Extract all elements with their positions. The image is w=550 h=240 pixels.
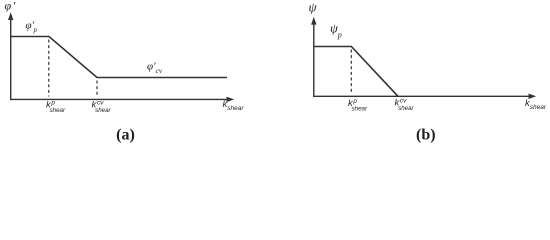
y-axis (b): [313, 23, 315, 97]
x-axis (a): [10, 98, 228, 100]
x-axis arrowhead (b): [529, 94, 537, 99]
y-axis (a): [10, 19, 12, 100]
y-axis arrowhead (b): [311, 17, 316, 25]
x-axis (b): [313, 95, 530, 97]
curve (a): peak plateau, softening slope, cv plateau: [11, 37, 227, 78]
svg-text:ψ: ψ: [309, 0, 318, 15]
svg-text:φ′: φ′: [5, 0, 16, 13]
dashed line at k_p (a): [48, 40, 50, 97]
curve (b): peak plateau then slope to axis: [314, 47, 398, 97]
x-axis arrowhead (a): [227, 97, 235, 102]
svg-text:(a): (a): [116, 127, 135, 144]
dashed line at k_p (b): [350, 50, 352, 94]
y-axis arrowhead (a): [8, 12, 13, 20]
svg-text:(b): (b): [416, 127, 436, 144]
dashed line at k_cv (a): [96, 81, 98, 97]
